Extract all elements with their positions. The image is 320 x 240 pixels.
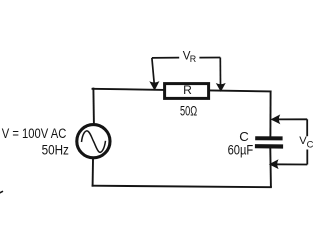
resistor R: [165, 84, 209, 99]
svg-text:50Hz: 50Hz: [42, 142, 69, 157]
VC bracket right vertical lower part: [306, 150, 308, 165]
wire right lower segment: [269, 148, 272, 186]
AC source V1 circle: [77, 125, 110, 158]
VC bracket bottom horizontal: [271, 163, 308, 165]
VR bracket left vertical wire: [152, 58, 154, 84]
VR bracket left horizontal: [152, 57, 179, 59]
wire bottom segment: [93, 186, 271, 188]
stray scan mark left edge: [0, 191, 3, 193]
VC bracket top horizontal: [272, 118, 307, 120]
VC bottom arrowhead: [270, 160, 278, 168]
VR right arrowhead: [217, 84, 225, 92]
svg-text:50Ω: 50Ω: [180, 104, 197, 120]
wire right upper segment: [269, 91, 271, 136]
VC top arrowhead: [271, 115, 279, 123]
VR left arrowhead: [150, 82, 159, 90]
VC bracket right vertical: [306, 119, 308, 136]
AC source sine symbol: [82, 131, 106, 152]
VR bracket right vertical wire: [219, 58, 221, 86]
wire left upper segment: [92, 89, 95, 124]
svg-text:60µF: 60µF: [228, 142, 254, 157]
wire top right segment: [210, 90, 271, 93]
svg-text:V = 100V AC: V = 100V AC: [2, 126, 67, 141]
svg-text:C: C: [307, 138, 314, 149]
capacitor C bottom plate: [255, 144, 283, 149]
svg-text:R: R: [183, 83, 192, 97]
VR bracket right horizontal: [199, 57, 220, 59]
capacitor C top plate: [255, 136, 282, 140]
wire left lower segment: [92, 159, 94, 185]
wire top left segment: [93, 89, 164, 90]
svg-text:R: R: [190, 54, 196, 64]
